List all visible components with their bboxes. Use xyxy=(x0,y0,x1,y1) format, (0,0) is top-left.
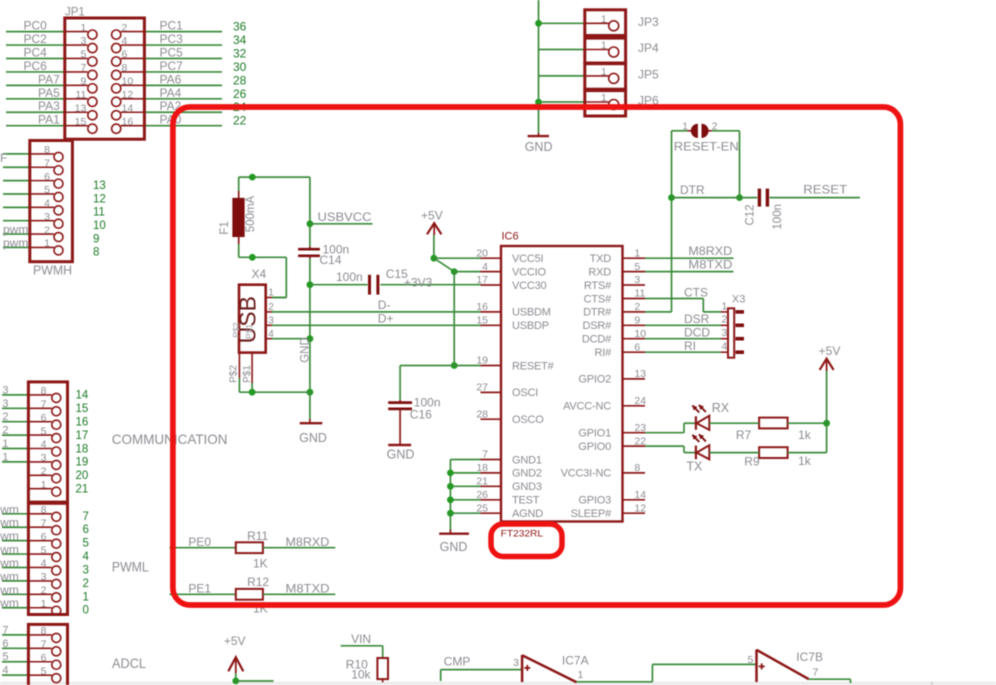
svg-text:12: 12 xyxy=(93,193,106,205)
svg-text:RI: RI xyxy=(684,339,696,353)
svg-text:1: 1 xyxy=(41,598,47,610)
svg-text:23: 23 xyxy=(634,422,646,434)
svg-text:5: 5 xyxy=(44,184,50,196)
svg-text:pwm: pwm xyxy=(0,583,19,597)
svg-text:6: 6 xyxy=(41,412,47,424)
svg-text:DSR#: DSR# xyxy=(582,320,612,332)
svg-text:PC5: PC5 xyxy=(160,45,184,59)
svg-text:15: 15 xyxy=(476,315,488,327)
svg-text:COMMUNICATION: COMMUNICATION xyxy=(112,431,228,447)
svg-text:7: 7 xyxy=(813,667,819,679)
svg-text:21: 21 xyxy=(76,484,89,496)
svg-text:GND: GND xyxy=(299,431,327,445)
svg-text:DCD: DCD xyxy=(684,325,710,339)
svg-text:GND: GND xyxy=(525,140,553,154)
svg-text:M8TXD: M8TXD xyxy=(286,582,330,596)
svg-text:1: 1 xyxy=(80,22,86,34)
svg-text:JP1: JP1 xyxy=(65,7,85,19)
svg-text:3: 3 xyxy=(80,35,86,47)
svg-text:6: 6 xyxy=(44,171,50,183)
svg-text:17: 17 xyxy=(76,430,89,442)
svg-text:pwm: pwm xyxy=(3,236,28,250)
svg-text:6: 6 xyxy=(122,49,128,61)
svg-text:28: 28 xyxy=(233,73,247,87)
svg-text:15: 15 xyxy=(75,116,87,128)
svg-text:GND: GND xyxy=(387,448,415,462)
svg-text:5: 5 xyxy=(41,425,47,437)
svg-text:2: 2 xyxy=(2,425,8,437)
svg-text:1k: 1k xyxy=(798,428,812,442)
svg-text:100n: 100n xyxy=(336,270,363,284)
svg-text:15: 15 xyxy=(76,403,89,415)
svg-text:20: 20 xyxy=(476,247,488,259)
svg-text:DCD#: DCD# xyxy=(582,334,612,346)
svg-text:14: 14 xyxy=(634,489,646,501)
svg-text:ADCL: ADCL xyxy=(112,655,146,671)
svg-text:11: 11 xyxy=(75,89,86,101)
svg-text:32: 32 xyxy=(233,46,247,60)
svg-text:+5V: +5V xyxy=(421,209,443,223)
svg-text:1: 1 xyxy=(44,238,50,250)
svg-text:2: 2 xyxy=(712,121,718,132)
svg-text:3: 3 xyxy=(2,384,8,396)
svg-text:1: 1 xyxy=(601,14,607,25)
svg-text:X3: X3 xyxy=(732,294,745,306)
svg-text:13: 13 xyxy=(93,180,106,192)
svg-text:OSCO: OSCO xyxy=(512,414,544,426)
svg-text:1: 1 xyxy=(2,451,8,463)
svg-text:F: F xyxy=(0,151,7,165)
svg-text:6: 6 xyxy=(41,531,47,543)
svg-text:9: 9 xyxy=(93,233,99,245)
svg-text:8: 8 xyxy=(41,625,47,637)
svg-text:R12: R12 xyxy=(247,575,269,589)
svg-text:34: 34 xyxy=(233,33,247,47)
svg-text:TX: TX xyxy=(686,460,703,474)
svg-text:1: 1 xyxy=(634,247,640,259)
svg-text:3: 3 xyxy=(83,564,89,576)
svg-text:1K: 1K xyxy=(253,557,268,571)
svg-text:VCCIO: VCCIO xyxy=(512,266,546,278)
svg-text:IC6: IC6 xyxy=(502,230,519,242)
svg-text:16: 16 xyxy=(76,417,89,429)
svg-text:D-: D- xyxy=(378,298,391,312)
svg-text:1: 1 xyxy=(578,669,584,681)
svg-text:5: 5 xyxy=(41,665,47,677)
svg-text:GND: GND xyxy=(300,337,312,363)
svg-text:16: 16 xyxy=(122,116,134,128)
svg-text:PC1: PC1 xyxy=(160,19,184,33)
svg-text:USBDP: USBDP xyxy=(512,320,549,332)
svg-text:5: 5 xyxy=(634,261,640,273)
svg-text:7: 7 xyxy=(41,517,47,529)
svg-text:PC3: PC3 xyxy=(160,32,184,46)
svg-text:5: 5 xyxy=(80,49,86,61)
svg-text:GPIO0: GPIO0 xyxy=(578,441,611,453)
svg-text:6: 6 xyxy=(2,638,8,650)
svg-text:P$2: P$2 xyxy=(231,322,241,337)
svg-text:9: 9 xyxy=(634,315,640,327)
svg-text:AVCC-NC: AVCC-NC xyxy=(563,401,611,413)
svg-text:PC6: PC6 xyxy=(24,59,48,73)
svg-text:AGND: AGND xyxy=(512,508,543,520)
svg-text:RXD: RXD xyxy=(588,266,611,278)
svg-text:1: 1 xyxy=(41,479,47,491)
svg-text:5: 5 xyxy=(2,651,8,663)
svg-text:PC4: PC4 xyxy=(24,45,48,59)
svg-text:pwm: pwm xyxy=(0,596,19,610)
svg-text:pwm: pwm xyxy=(0,543,19,557)
svg-text:6: 6 xyxy=(41,652,47,664)
svg-text:R11: R11 xyxy=(247,529,268,543)
svg-text:13: 13 xyxy=(75,102,87,114)
svg-text:PA7: PA7 xyxy=(38,72,60,86)
svg-text:RESET#: RESET# xyxy=(512,360,555,372)
svg-text:PE0: PE0 xyxy=(188,535,211,549)
svg-text:PWML: PWML xyxy=(112,559,149,575)
svg-text:2: 2 xyxy=(44,224,50,236)
svg-text:M8RXD: M8RXD xyxy=(688,244,732,258)
svg-text:DTR: DTR xyxy=(680,183,705,197)
svg-text:8: 8 xyxy=(41,385,47,397)
svg-text:4: 4 xyxy=(83,551,90,563)
svg-text:P$1: P$1 xyxy=(244,324,254,339)
svg-text:10: 10 xyxy=(122,76,134,88)
svg-text:18: 18 xyxy=(76,443,89,455)
svg-text:1k: 1k xyxy=(798,454,812,468)
svg-text:13: 13 xyxy=(634,368,646,380)
svg-text:3: 3 xyxy=(41,571,47,583)
svg-text:6: 6 xyxy=(83,524,89,536)
svg-text:19: 19 xyxy=(76,457,89,469)
svg-text:7: 7 xyxy=(41,639,47,651)
svg-text:FT232RL: FT232RL xyxy=(501,529,543,540)
svg-text:TXD: TXD xyxy=(590,253,612,265)
svg-text:CTS#: CTS# xyxy=(584,293,612,305)
svg-text:9: 9 xyxy=(80,76,86,88)
svg-text:JP4: JP4 xyxy=(638,41,659,55)
svg-text:2: 2 xyxy=(634,301,640,313)
svg-text:R9: R9 xyxy=(744,454,760,468)
svg-text:1: 1 xyxy=(682,121,688,132)
svg-text:1: 1 xyxy=(601,67,607,78)
svg-text:OSCI: OSCI xyxy=(512,387,538,399)
svg-text:5: 5 xyxy=(83,538,89,550)
svg-text:7: 7 xyxy=(2,624,8,636)
svg-text:RTS#: RTS# xyxy=(584,280,612,292)
svg-text:PWMH: PWMH xyxy=(33,264,72,278)
svg-text:TEST: TEST xyxy=(512,495,540,507)
svg-text:4: 4 xyxy=(41,439,47,451)
svg-text:GND1: GND1 xyxy=(512,454,542,466)
svg-text:PA3: PA3 xyxy=(38,99,60,113)
svg-text:27: 27 xyxy=(476,382,488,394)
svg-text:1: 1 xyxy=(721,300,727,312)
svg-text:0: 0 xyxy=(83,605,89,617)
svg-text:10: 10 xyxy=(93,220,106,232)
svg-text:X4: X4 xyxy=(252,267,267,281)
svg-text:+5V: +5V xyxy=(224,634,246,648)
svg-text:20: 20 xyxy=(76,470,89,482)
svg-text:4: 4 xyxy=(41,558,47,570)
svg-text:PE1: PE1 xyxy=(188,582,211,596)
svg-text:JP5: JP5 xyxy=(638,68,659,82)
svg-text:19: 19 xyxy=(476,355,488,367)
svg-text:CMP: CMP xyxy=(444,654,471,668)
svg-text:30: 30 xyxy=(233,60,247,74)
svg-text:12: 12 xyxy=(122,89,134,101)
svg-text:pwm: pwm xyxy=(0,569,19,583)
svg-text:VCC5I: VCC5I xyxy=(512,253,544,265)
svg-text:100n: 100n xyxy=(772,204,784,230)
svg-text:7: 7 xyxy=(482,449,488,461)
svg-text:IC7A: IC7A xyxy=(562,653,589,667)
svg-text:11: 11 xyxy=(93,207,105,219)
svg-text:2: 2 xyxy=(41,466,47,478)
svg-text:4: 4 xyxy=(482,261,488,273)
svg-text:2: 2 xyxy=(83,578,89,590)
svg-text:8: 8 xyxy=(93,247,99,259)
svg-text:PC2: PC2 xyxy=(24,32,48,46)
svg-text:D+: D+ xyxy=(378,311,394,325)
svg-text:GND: GND xyxy=(440,540,468,554)
svg-text:3: 3 xyxy=(41,452,47,464)
svg-text:C12: C12 xyxy=(744,204,756,225)
svg-text:1: 1 xyxy=(83,591,89,603)
svg-text:14: 14 xyxy=(122,102,134,114)
svg-text:M8TXD: M8TXD xyxy=(688,257,732,271)
svg-text:6: 6 xyxy=(634,341,640,353)
svg-text:RX: RX xyxy=(712,401,730,415)
svg-text:SLEEP#: SLEEP# xyxy=(571,508,612,520)
svg-text:IC7B: IC7B xyxy=(796,650,823,664)
svg-text:R7: R7 xyxy=(736,428,752,442)
svg-text:DTR#: DTR# xyxy=(583,307,612,319)
svg-text:pwm: pwm xyxy=(0,529,19,543)
svg-text:2: 2 xyxy=(41,585,47,597)
svg-text:12: 12 xyxy=(634,502,646,514)
svg-text:10k: 10k xyxy=(351,668,371,682)
svg-text:16: 16 xyxy=(476,301,488,313)
svg-text:1: 1 xyxy=(601,41,607,52)
svg-text:22: 22 xyxy=(634,435,646,447)
svg-text:11: 11 xyxy=(634,288,645,300)
svg-text:pwm: pwm xyxy=(0,516,19,530)
svg-text:JP3: JP3 xyxy=(638,15,659,29)
svg-text:500mA: 500mA xyxy=(245,195,257,232)
svg-text:1: 1 xyxy=(601,93,607,104)
svg-text:pwm: pwm xyxy=(0,556,19,570)
svg-text:24: 24 xyxy=(634,395,646,407)
svg-text:7: 7 xyxy=(80,62,86,74)
svg-text:8: 8 xyxy=(41,504,47,516)
svg-text:PA6: PA6 xyxy=(160,72,182,86)
svg-text:8: 8 xyxy=(634,462,640,474)
svg-text:GPIO3: GPIO3 xyxy=(578,495,611,507)
svg-text:3: 3 xyxy=(634,274,640,286)
svg-text:GND3: GND3 xyxy=(512,481,542,493)
svg-text:PC0: PC0 xyxy=(24,19,48,33)
svg-text:RESET: RESET xyxy=(803,182,848,196)
svg-text:PA5: PA5 xyxy=(38,86,60,100)
svg-text:3: 3 xyxy=(2,398,8,410)
svg-text:RI#: RI# xyxy=(594,347,612,359)
svg-text:P$1: P$1 xyxy=(242,365,253,383)
svg-text:VCC3I-NC: VCC3I-NC xyxy=(561,468,612,480)
svg-text:22: 22 xyxy=(233,114,247,128)
svg-text:USBDM: USBDM xyxy=(512,307,551,319)
svg-text:7: 7 xyxy=(44,157,50,169)
svg-text:C16: C16 xyxy=(410,408,432,422)
svg-text:+5V: +5V xyxy=(819,344,841,358)
svg-text:2: 2 xyxy=(721,314,727,326)
svg-text:5: 5 xyxy=(748,654,754,666)
svg-text:RESET-EN: RESET-EN xyxy=(674,140,739,154)
svg-text:4: 4 xyxy=(2,665,8,677)
svg-text:USBVCC: USBVCC xyxy=(318,210,372,224)
svg-text:4: 4 xyxy=(721,341,727,353)
svg-text:VIN: VIN xyxy=(351,632,371,646)
svg-text:2: 2 xyxy=(122,22,128,34)
svg-text:DSR: DSR xyxy=(684,312,710,326)
svg-text:8: 8 xyxy=(44,144,50,156)
svg-text:pwm: pwm xyxy=(3,223,28,237)
svg-text:pwm: pwm xyxy=(0,502,19,516)
svg-text:7: 7 xyxy=(83,511,89,523)
svg-text:14: 14 xyxy=(76,390,89,402)
svg-text:4: 4 xyxy=(122,35,128,47)
svg-text:26: 26 xyxy=(233,87,247,101)
svg-text:1: 1 xyxy=(2,438,8,450)
svg-text:F1: F1 xyxy=(219,221,231,234)
svg-text:PC7: PC7 xyxy=(160,59,184,73)
svg-text:3: 3 xyxy=(44,211,50,223)
svg-text:CTS: CTS xyxy=(684,285,708,299)
svg-text:3: 3 xyxy=(513,657,519,669)
svg-text:2: 2 xyxy=(2,411,8,423)
svg-text:28: 28 xyxy=(476,408,488,420)
svg-text:C14: C14 xyxy=(320,253,342,267)
svg-text:5: 5 xyxy=(41,544,47,556)
svg-text:GPIO2: GPIO2 xyxy=(578,374,611,386)
svg-text:3: 3 xyxy=(721,327,727,339)
svg-text:8: 8 xyxy=(122,62,128,74)
svg-text:4: 4 xyxy=(44,198,50,210)
svg-text:36: 36 xyxy=(233,20,247,34)
svg-text:+3V3: +3V3 xyxy=(404,275,433,289)
svg-text:10: 10 xyxy=(634,328,646,340)
svg-text:GND2: GND2 xyxy=(512,468,542,480)
svg-text:7: 7 xyxy=(41,399,47,411)
svg-text:VCC30: VCC30 xyxy=(512,280,547,292)
svg-text:PA1: PA1 xyxy=(38,113,60,127)
svg-text:17: 17 xyxy=(476,274,488,286)
svg-text:GPIO1: GPIO1 xyxy=(578,428,611,440)
svg-text:P$2: P$2 xyxy=(229,365,240,383)
svg-text:PA4: PA4 xyxy=(160,86,182,100)
svg-text:M8RXD: M8RXD xyxy=(286,535,330,549)
